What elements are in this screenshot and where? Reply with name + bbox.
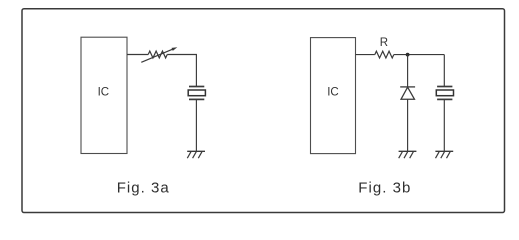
- crystal resonator X2: [436, 87, 453, 100]
- wire: [195, 99, 197, 151]
- IC U2: [311, 38, 356, 154]
- resistor R: [375, 37, 394, 58]
- IC U1: [81, 37, 127, 153]
- wire: [407, 55, 409, 87]
- wire: [394, 54, 445, 56]
- svg-text:Fig. 3b: Fig. 3b: [358, 180, 410, 197]
- crystal resonator X1: [188, 87, 205, 100]
- diode D1: [400, 87, 415, 99]
- wire: [167, 55, 196, 87]
- svg-text:R: R: [380, 37, 388, 49]
- wire: [443, 55, 445, 87]
- wire: [443, 99, 445, 151]
- ground: [435, 151, 453, 158]
- ground: [187, 151, 205, 158]
- wire: [127, 54, 148, 56]
- wire: [407, 99, 409, 151]
- svg-text:Fig. 3a: Fig. 3a: [117, 180, 170, 197]
- ground: [399, 151, 417, 158]
- node A: [406, 53, 410, 57]
- svg-text:IC: IC: [327, 87, 338, 99]
- svg-text:IC: IC: [98, 87, 109, 99]
- wire: [356, 54, 375, 56]
- variable resistor VR1 (trimmer with arrow): [141, 47, 177, 62]
